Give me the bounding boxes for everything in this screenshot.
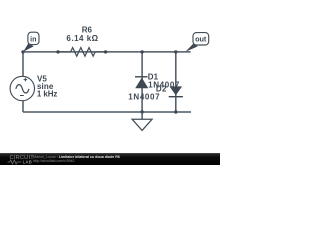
- voltage source V5: [10, 76, 34, 100]
- wire: V5 bottom to bottom rail: [22, 101, 24, 112]
- wire bottom rail: [23, 111, 191, 113]
- diode D2: [169, 52, 183, 112]
- ground: [132, 112, 152, 130]
- footer logo resistor zigzag: [8, 160, 22, 164]
- resistor R6: [56, 48, 107, 57]
- node D1 bottom: [140, 110, 143, 113]
- footer bar: [0, 153, 220, 165]
- svg-text:1 kHz: 1 kHz: [37, 90, 57, 99]
- wire top rail: [23, 51, 191, 53]
- flag in: [23, 32, 39, 52]
- svg-text:out: out: [195, 34, 207, 43]
- svg-text:1N4007: 1N4007: [128, 92, 160, 101]
- wire: in junction down to V5 top: [22, 52, 24, 77]
- flag out: [185, 33, 208, 52]
- svg-text:http://circuitlab.com/c/59k2: http://circuitlab.com/c/59k2: [33, 159, 74, 163]
- node in-junction: [21, 50, 24, 53]
- svg-text:6.14 kΩ: 6.14 kΩ: [66, 34, 98, 43]
- node D1 top: [140, 50, 143, 53]
- diode D1: [135, 52, 148, 112]
- node D2 top: [174, 50, 177, 53]
- svg-text:LAB: LAB: [23, 160, 33, 165]
- node D2 bottom: [174, 110, 177, 113]
- svg-text:in: in: [30, 34, 36, 43]
